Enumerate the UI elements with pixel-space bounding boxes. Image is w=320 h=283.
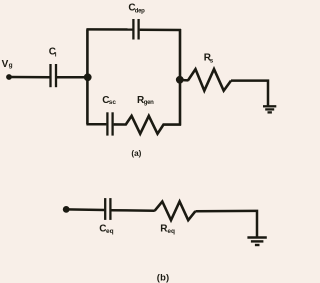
resistor Rs: [188, 69, 231, 91]
label Csc: [102, 95, 116, 106]
label Cdep: [128, 3, 145, 15]
node B junction dot: [176, 76, 184, 84]
svg-text:eq: eq: [106, 228, 114, 235]
resistor Rgen: [114, 116, 181, 134]
svg-text:g: g: [9, 62, 13, 69]
svg-text:gen: gen: [144, 100, 154, 106]
label Ceq: [99, 223, 113, 235]
node Vg terminal dot: [6, 74, 12, 80]
wire Vg to Ci: [9, 76, 50, 79]
resistor Req: [155, 202, 196, 221]
label Rs: [204, 53, 214, 65]
wire right vertical of parallel branch: [179, 29, 182, 126]
node A junction dot: [84, 73, 92, 81]
svg-text:(b): (b): [157, 271, 170, 282]
ground symbol circuit a: [263, 106, 276, 112]
wire bottom branch left: [86, 123, 106, 126]
ground symbol circuit b: [247, 238, 266, 246]
wire Ci to node A: [57, 76, 88, 79]
wire top branch left: [86, 28, 132, 31]
wire left vertical of parallel branch: [86, 29, 89, 124]
capacitor Cdep: [133, 19, 138, 40]
capacitor Csc: [107, 112, 112, 135]
label Vg (input voltage): [2, 59, 13, 70]
capacitor Ceq: [105, 198, 110, 220]
wire top branch right: [140, 29, 181, 32]
wire Ceq to Req: [111, 209, 154, 212]
svg-text:sc: sc: [109, 99, 117, 106]
label Ci: [49, 46, 57, 58]
svg-text:(a): (a): [131, 149, 141, 158]
svg-text:dep: dep: [135, 8, 145, 14]
svg-text:V: V: [2, 59, 9, 70]
label Req: [160, 223, 175, 235]
node input terminal dot circuit b: [63, 206, 70, 213]
wire Rs to ground corner: [231, 81, 268, 106]
svg-text:eq: eq: [167, 228, 175, 235]
wire Req to ground corner: [195, 211, 257, 237]
svg-text:s: s: [210, 58, 214, 65]
capacitor Ci: [51, 64, 57, 87]
label Rgen: [137, 95, 154, 106]
svg-text:i: i: [55, 52, 57, 59]
wire node B to Rs: [180, 79, 189, 82]
wire input to Ceq: [66, 208, 104, 211]
